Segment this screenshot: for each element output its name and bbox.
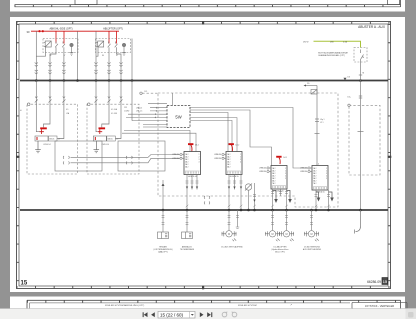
svg-text:0.5 L9B: 0.5 L9B [111,113,118,115]
svg-text:L9: L9 [58,139,60,141]
label plug 1 [154,246,173,254]
svg-text:(Hydraulikanschluss: (Hydraulikanschluss [272,248,289,251]
relay coil K1K [44,41,51,47]
svg-text:15: 15 [383,279,388,284]
5W wires to module A top [122,130,196,151]
relay contact K2b [115,42,118,48]
ground under relay K2G [122,47,126,56]
wire to plug 1 [162,210,164,232]
previous view button (disabled) [222,312,227,317]
svg-text:5: 5 [326,178,327,180]
svg-text:KÜHLER-SYSTEM: KÜHLER-SYSTEM [238,304,257,307]
svg-text:ABKNALDO: ABKNALDO [182,246,193,249]
wires relay group 1 to bus [36,31,77,80]
svg-text:C31: C31 [124,107,127,109]
svg-text:L9p 1: L9p 1 [320,119,325,121]
svg-text:87: 87 [116,55,118,57]
svg-text:M: M [271,233,273,236]
svg-text:66286-09: 66286-09 [367,280,381,284]
svg-text:M: M [285,233,287,236]
svg-text:CA ABBAUNGSSEN ABL (OPT): CA ABBAUNGSSEN ABL (OPT) [318,54,345,57]
wire to module D top [315,86,320,164]
svg-text:(LÜFTERFAHRZEUG): (LÜFTERFAHRZEUG) [154,248,173,251]
connector pair 2 [126,156,132,164]
svg-text:DC AUX VERTLAUFEND: DC AUX VERTLAUFEND [221,246,243,249]
red feed drops to relay contacts [56,31,117,43]
ground GND1 [35,141,41,153]
motor M2 [265,231,280,242]
svg-text:L5W.0 D4: L5W.0 D4 [43,144,50,146]
ground under relay K1G [70,47,74,56]
fuse F1 (red) [40,127,47,129]
previous page number box [388,0,400,5]
svg-text:D4.1: D4.1 [283,157,287,159]
prev page button [151,312,155,317]
svg-text:5W.05: 5W.05 [49,139,54,141]
module D branch arrows [316,192,332,198]
5W wires to module B top right [190,118,237,152]
svg-text:Motor OPT): Motor OPT) [275,251,285,254]
svg-text:5W.05: 5W.05 [108,139,113,141]
svg-text:HINSAW: HINSAW [159,246,167,249]
splice pair right of module A [204,196,210,204]
terminal D1 [140,92,142,94]
wire to motor 3 [286,210,288,230]
wires bus to fuse boxes [36,81,132,121]
stub lead [237,210,239,227]
ref arrow D5 [304,85,307,87]
svg-text:L9RA/D4: L9RA/D4 [300,167,307,170]
connector module A [184,152,201,175]
motor M3 [279,231,294,242]
fuse lead F2 (red) [98,129,102,134]
svg-text:L5W.0 D4: L5W.0 D4 [102,144,109,146]
wire 30 supply rail (red) [31,30,119,32]
fuse F5 [311,90,317,95]
control unit 5W [167,106,190,128]
splice symbols group 2 [94,63,122,75]
bus 1 junctions [35,79,362,82]
fuse AF (red) [188,143,193,145]
svg-text:4: 4 [240,161,241,163]
svg-text:AUX VERTLAUFEND: AUX VERTLAUFEND [303,248,322,251]
svg-text:M: M [228,233,230,236]
5W output wire to module B top [190,113,228,152]
indicator terminal K1L [70,43,74,47]
hook terminal [355,210,361,234]
svg-text:M: M [310,233,312,236]
wire to motor 1 [228,210,230,230]
svg-text:4: 4 [199,161,200,163]
svg-text:1.5WD: 1.5WD [124,111,130,113]
svg-text:TECHNERFARN: TECHNERFARN [180,248,195,251]
wires into cluster 1 [36,104,64,138]
wire loop 2 [118,141,165,171]
wire L90 (yellow-green) [314,41,361,47]
enclosure 1 terminal [27,103,30,106]
connector module B [226,152,242,175]
module D bottom wires [315,190,317,210]
fuse entry symbols [35,97,123,103]
motor M4 [304,231,319,242]
relay contact K1a [55,42,58,48]
svg-text:NICHT AUSGABEN ABBAUGERÄT: NICHT AUSGABEN ABBAUGERÄT [318,51,349,54]
svg-text:D3: D3 [348,77,350,79]
label plug 2 [180,246,195,252]
junction enclosure 2 (dashed) [87,104,139,174]
svg-text:DC AKTIVIERUNG: DC AKTIVIERUNG [304,246,320,249]
svg-text:L9B 1.5: L9B 1.5 [136,111,142,113]
enclosure 2 terminal [88,103,91,106]
svg-text:KÜHLER-SYSTEM ABKÜHLUNG (OPT): KÜHLER-SYSTEM ABKÜHLUNG (OPT) [105,304,145,307]
bus line 2 [20,209,388,211]
scrollbar corner [406,309,416,319]
svg-text:L9RB/D4: L9RB/D4 [172,158,179,160]
previous page sheet (bottom sliver) [10,0,405,12]
svg-text:L9RB/D4: L9RB/D4 [259,171,266,173]
svg-text:ABLÜFTER (OPT): ABLÜFTER (OPT) [103,28,123,31]
label motor 4 [303,246,322,252]
bus tap arrow D3 [344,78,347,81]
svg-text:L2 1: L2 1 [320,122,324,124]
previous page border frame [15,0,401,7]
svg-text:6A 2: 6A 2 [185,165,188,168]
next page border frame [27,300,401,310]
controller enclosure (large dashed) [158,93,338,207]
5W output wire to module D [190,108,308,169]
plug X11 [182,232,193,239]
next page button [200,312,204,317]
terminal box 2 X2b [107,136,116,141]
svg-text:DC ABLÜFTER: DC ABLÜFTER [273,246,287,249]
indicator terminal K2L [122,43,126,47]
fuse lead F1 (red) [40,129,44,134]
page number box [158,311,195,318]
connector module C [271,166,287,190]
ground GND2 [94,141,100,153]
wire to motor 2 [272,210,274,230]
splice symbols group 1 [35,63,66,75]
sensor P1 lead 2 [254,183,256,210]
relay coil K2K [96,41,103,47]
aux enclosure (dashed) right [349,105,380,175]
svg-text:15: 15 [21,281,28,287]
svg-text:5: 5 [285,178,286,180]
wire switch to bus 1 [359,62,362,81]
relay module K2 (dashed enclosure) [96,39,131,53]
wire code labels [66,107,130,115]
plug X10 [158,232,169,239]
5W output wire to module C [190,110,272,166]
bus line 1 [20,80,388,82]
svg-text:7A 2: 7A 2 [313,182,316,185]
svg-text:L9: L9 [116,139,118,141]
svg-text:JOYSTICK - VERTEILER: JOYSTICK - VERTEILER [365,304,394,308]
up arrow wire [162,186,164,210]
bottom toolbar [0,309,416,319]
next page sheet (top sliver) [10,297,405,311]
svg-text:6A 2: 6A 2 [227,165,230,168]
svg-text:L9RB/D4: L9RB/D4 [214,158,221,160]
switch S1 (dashed enclosure) [354,48,367,63]
svg-text:0.5 L9A: 0.5 L9A [111,108,118,111]
terminal box 2 X1b [49,136,58,141]
fuse BF (red) [229,143,234,145]
junction enclosure 1 (dashed) [27,104,78,174]
relay module K1 (dashed enclosure) [43,39,78,53]
bus 2 junctions [162,209,362,212]
joystick verteiler title box [352,302,407,309]
motor M1 [222,231,237,242]
svg-text:290 W: 290 W [303,42,309,44]
5W bottom-left wires [143,124,167,127]
svg-text:15 (22 / 60): 15 (22 / 60) [160,313,184,318]
svg-text:D4.2: D4.2 [195,145,199,147]
svg-text:ABKÜHL-SIDE (OPT): ABKÜHL-SIDE (OPT) [49,28,72,31]
svg-text:7A 2: 7A 2 [272,182,275,185]
drawing frame outer [16,21,391,289]
relay contact K2a [108,42,111,48]
svg-text:D4.2: D4.2 [236,145,240,147]
terminal box X1 [35,136,48,141]
wire to plug 2 [186,210,188,232]
sheet index box [382,278,388,285]
svg-text:D5: D5 [307,83,309,85]
svg-text:0.5: 0.5 [66,109,68,111]
last page button [207,312,212,317]
wires into cluster 2 [96,104,121,138]
connector module D [312,166,328,191]
module C bottom wires [272,189,274,210]
svg-text:L9RA/D4: L9RA/D4 [259,167,266,170]
svg-text:↗: ↗ [290,304,292,307]
module B bottom wires [228,175,230,211]
svg-text:L9RA/D4: L9RA/D4 [214,153,221,156]
wire to motor 4 [311,210,313,230]
svg-text:AAA (OPT): AAA (OPT) [158,251,168,254]
svg-text:L9RB/D4: L9RB/D4 [300,171,307,173]
label motor 1 [221,246,243,249]
wire to module A pin 2 [71,158,180,163]
svg-text:L9RA/D4: L9RA/D4 [172,153,179,156]
connector pair 1 [63,156,69,164]
first page button [143,312,148,317]
svg-text:L9A 1.5: L9A 1.5 [136,106,142,109]
previous page title box [75,0,97,5]
wires relay group 2 to bus [96,31,132,80]
wire switch drop below bus [358,81,364,211]
label motors 2-3 [272,246,289,254]
module A bottom wires [186,175,188,211]
5W input wires [126,104,167,121]
wire loop 1 [55,141,102,171]
module C branch arrows [273,191,291,200]
svg-text:5W: 5W [175,115,181,120]
next view button (disabled) [231,312,236,317]
terminal box X2 [93,136,106,141]
fuse F2 (red) [99,127,106,129]
fuse CF (red) [276,156,281,158]
svg-text:86: 86 [102,55,104,57]
sensor P1 [245,184,252,211]
svg-text:ABUSTER A - AUX: ABUSTER A - AUX [358,25,386,29]
wire to module A pin 1 [71,155,180,158]
relay contact K1b [62,42,65,48]
svg-text:4: 4 [318,164,319,166]
